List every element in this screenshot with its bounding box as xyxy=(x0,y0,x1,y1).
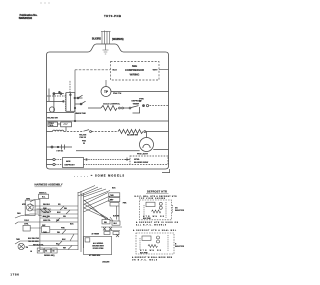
svg-text:WIRING SEQ: WIRING SEQ xyxy=(44,255,55,257)
svg-text:12: 12 xyxy=(38,251,40,253)
svg-text:DEFROST HTR: DEFROST HTR xyxy=(147,190,167,194)
svg-text:62: 62 xyxy=(45,251,47,253)
svg-text:DOOR OPEN: DOOR OPEN xyxy=(93,248,104,250)
svg-text:BLU/BR WH: BLU/BR WH xyxy=(127,135,139,137)
svg-text:SEE: SEE xyxy=(132,64,137,68)
svg-text:2604JM: 2604JM xyxy=(102,261,109,264)
svg-text:DEF: DEF xyxy=(110,200,113,202)
svg-text:BLK PNK: BLK PNK xyxy=(143,218,151,220)
svg-text:COMPRESSOR: COMPRESSOR xyxy=(125,68,144,72)
svg-text:WIRING: WIRING xyxy=(130,73,140,77)
svg-text:FRZ LIGHT: FRZ LIGHT xyxy=(137,154,149,156)
svg-text:COLD CONTROL: COLD CONTROL xyxy=(103,103,121,105)
svg-text:ADE: ADE xyxy=(66,160,71,163)
svg-text:W: W xyxy=(83,143,85,145)
svg-text:04: 04 xyxy=(52,250,54,253)
svg-text:ON B.F.C. MDLS: ON B.F.C. MDLS xyxy=(132,260,158,262)
svg-text:TR70-PNB: TR70-PNB xyxy=(104,14,121,18)
svg-text:BLK/RD: BLK/RD xyxy=(92,38,101,41)
svg-text:YEL/RD WH: YEL/RD WH xyxy=(47,118,58,120)
svg-text:INDUCTOR: INDUCTOR xyxy=(175,246,185,248)
svg-text:A DEFROST HTR & SEAL MDL: A DEFROST HTR & SEAL MDL xyxy=(133,229,177,232)
svg-text:ALL WIRING: ALL WIRING xyxy=(93,242,104,245)
svg-text:WH BLK: WH BLK xyxy=(43,204,51,206)
svg-text:BLK: BLK xyxy=(113,70,118,72)
svg-text:ALL B.F.C. MODELS: ALL B.F.C. MODELS xyxy=(136,224,167,227)
svg-text:AT TIMER: AT TIMER xyxy=(92,232,100,235)
svg-text:TIMER: TIMER xyxy=(133,103,140,105)
svg-text:. . . . . = SOME MODELS: . . . . . = SOME MODELS xyxy=(74,174,124,178)
svg-text:PNK TM: PNK TM xyxy=(113,93,121,95)
svg-text:WH BLK YEL: WH BLK YEL xyxy=(33,244,45,246)
svg-text:SPWL: SPWL xyxy=(134,159,140,161)
svg-text:BLK WH PNK: BLK WH PNK xyxy=(28,238,40,240)
svg-text:YEL RD GRN: YEL RD GRN xyxy=(28,241,39,243)
svg-text:BLK WH: BLK WH xyxy=(43,216,51,218)
svg-text:WHT: WHT xyxy=(153,70,159,72)
svg-text:GRN YEL: GRN YEL xyxy=(43,220,52,222)
svg-text:INDUCTOR: INDUCTOR xyxy=(175,210,185,212)
svg-text:5995261162: 5995261162 xyxy=(19,16,33,20)
svg-text:BLK PNK: BLK PNK xyxy=(140,252,148,254)
svg-text:(WH/BRN): (WH/BRN) xyxy=(112,38,124,41)
svg-text:5995 B.C.: 5995 B.C. xyxy=(39,192,47,194)
svg-text:DEFROST: DEFROST xyxy=(65,165,76,167)
svg-text:PNK W: PNK W xyxy=(80,137,87,139)
svg-text:AT TIMER MDL: AT TIMER MDL xyxy=(89,254,100,257)
svg-text:I WT M.: I WT M. xyxy=(57,151,64,153)
svg-text:1786: 1786 xyxy=(10,273,19,277)
svg-text:B.C.: B.C. xyxy=(42,197,46,199)
svg-text:HMKW PNK: HMKW PNK xyxy=(75,113,86,115)
svg-text:BLK RD: BLK RD xyxy=(113,216,120,218)
svg-text:BLK/RED WDW: BLK/RED WDW xyxy=(134,162,148,164)
svg-text:COLD: COLD xyxy=(24,220,30,222)
svg-text:YEL RD: YEL RD xyxy=(43,212,50,214)
svg-text:HARNESS ASSEMBLY: HARNESS ASSEMBLY xyxy=(35,182,63,186)
